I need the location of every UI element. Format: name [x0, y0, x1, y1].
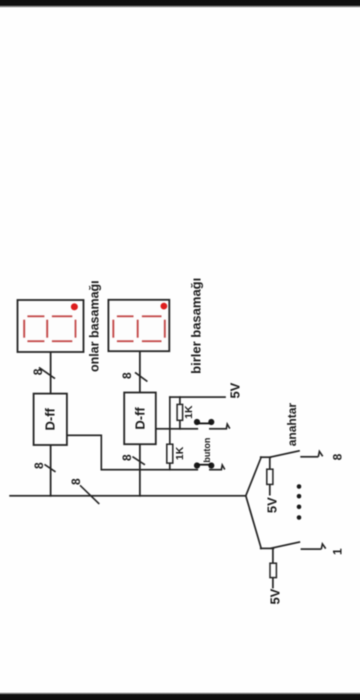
resistor R4 (switch 1 pull): [270, 563, 276, 577]
bus slash marker wire U2-DS2: [135, 372, 147, 381]
wire: clock of D-ff U2 down to button B1: [156, 428, 198, 430]
wire: button B2 lower stub: [210, 469, 221, 471]
svg-text:buton: buton: [202, 438, 212, 463]
wire: R4 to 5V: [272, 578, 274, 589]
svg-text:8: 8: [120, 454, 134, 461]
wire: switch column 1 pivot stem: [261, 547, 274, 549]
button B2 bridge bar: [197, 464, 211, 466]
svg-text:anahtar: anahtar: [285, 403, 299, 447]
7-segment display DS1 box: [18, 300, 84, 352]
svg-text:5V: 5V: [228, 382, 243, 398]
button B1 bridge bar: [197, 422, 211, 424]
switch S1 fixed contact line: [300, 456, 318, 458]
svg-text:8: 8: [32, 462, 46, 469]
status bar bottom: [0, 692, 360, 700]
svg-text:D-ff: D-ff: [43, 407, 58, 430]
switch S1 (column value 8) blade: [270, 451, 300, 458]
svg-text:onlar basamağı: onlar basamağı: [88, 280, 102, 372]
svg-text:1: 1: [331, 548, 345, 555]
svg-text:5V: 5V: [265, 497, 280, 513]
switch S8 (column value 1) blade: [270, 542, 300, 549]
wire: main 8-bit bus: [10, 495, 246, 497]
wire: fan to switch column 1: [246, 496, 261, 549]
button B1 contacts: [194, 419, 215, 425]
D-ff U2 (birler register): [124, 393, 156, 445]
wire: resistor R1 left lead to button B1 node: [179, 420, 181, 429]
svg-text:8: 8: [69, 478, 83, 485]
bus slash marker wire U2-bus: [132, 457, 145, 465]
decimal point of DS1: [71, 303, 78, 310]
7-segment digit 8 of DS1: [24, 316, 75, 341]
wire: resistor R2 right lead to 5V rail: [169, 397, 171, 444]
7-segment digit 8 of DS2: [113, 316, 165, 341]
ellipsis dots (more switches): [297, 484, 302, 520]
decimal point of DS2: [161, 303, 168, 310]
svg-text:8: 8: [120, 372, 134, 379]
wire: resistor R2 left lead to button B2 node: [169, 463, 171, 470]
svg-text:8: 8: [31, 368, 45, 375]
wire: S8 node to resistor R4: [272, 548, 274, 563]
wire: D-ff U1 to display DS1: [50, 352, 52, 394]
wire: button B1 lower stub: [210, 428, 226, 430]
switch S8 hook: [321, 544, 325, 549]
wire: fan to switch column 8: [246, 457, 261, 496]
7-segment display DS2 box: [108, 300, 169, 351]
status bar top: [0, 0, 360, 8]
wire: D-ff U2 to bus: [139, 444, 141, 496]
resistor R1 1K (pull-up for button B1): [177, 404, 183, 420]
wire: S1 node to resistor R3: [269, 457, 271, 469]
button B2 actuator hook: [221, 465, 225, 470]
wire: clock of D-ff U1 down to button B2: [67, 435, 197, 469]
bus slash marker wire U1-bus: [44, 464, 55, 472]
wire: 5V rail for buttons: [170, 396, 225, 398]
wire: D-ff U2 to display DS2: [139, 351, 141, 392]
svg-text:1K: 1K: [174, 446, 186, 460]
resistor R3 (switch 8 pull): [267, 469, 273, 484]
switch S8 fixed contact line: [301, 548, 322, 550]
bus slash marker on main bus: [80, 485, 99, 504]
wire: switch column 8 pivot stem: [261, 456, 271, 458]
svg-text:birler basamağı: birler basamağı: [189, 278, 204, 374]
svg-text:5V: 5V: [268, 588, 283, 604]
wire: R3 to 5V: [269, 484, 271, 495]
button B2 contacts: [194, 462, 215, 468]
button B1 actuator hook: [226, 424, 230, 429]
resistor R2 1K (pull-up for button B2): [167, 444, 173, 463]
svg-text:8: 8: [330, 453, 344, 460]
wire: resistor R1 right lead to 5V rail: [179, 397, 181, 404]
svg-text:1K: 1K: [183, 405, 195, 419]
D-ff U1 (onlar register): [34, 394, 67, 445]
wire: D-ff U1 to bus: [50, 445, 52, 496]
switch S1 hook: [318, 451, 322, 456]
bus slash marker wire U1-DS1: [39, 367, 55, 378]
svg-text:D-ff: D-ff: [132, 407, 147, 430]
